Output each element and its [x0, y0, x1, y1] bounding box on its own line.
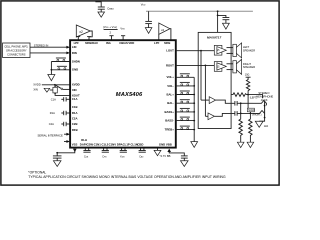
ground [247, 142, 254, 147]
node junction tip [240, 102, 242, 104]
wire to buffer B4 [204, 65, 206, 116]
pin labels right [164, 49, 174, 132]
switch S3 [55, 85, 70, 90]
svg-text:CBIAS: CBIAS [119, 41, 128, 45]
svg-text:C2B: C2B [72, 122, 78, 126]
pin VSS arrow [56, 149, 76, 154]
svg-text:JACK: JACK [261, 98, 268, 102]
resistor R4 [249, 113, 253, 142]
svg-text:CL1P CL1N: CL1P CL1N [123, 142, 138, 146]
pin LPF [76, 37, 80, 41]
headphone jack [253, 101, 266, 122]
svg-text:RFB: RFB [72, 128, 78, 132]
capacitor CPB [102, 148, 109, 158]
speaker right [233, 59, 242, 74]
wire ROUT inside box [198, 64, 214, 66]
svg-text:LIN: LIN [72, 45, 77, 49]
svg-text:XVDD: XVDD [72, 82, 80, 86]
button BAL- [176, 100, 195, 104]
wire SGND to ring [249, 112, 251, 114]
connectors box [3, 43, 30, 58]
ground [237, 142, 244, 147]
capacitor CHOLD [49, 122, 70, 126]
capacitor C3 [218, 15, 230, 23]
svg-text:SPEAKER: SPEAKER [243, 65, 255, 69]
ground [44, 88, 53, 92]
pin VSS [121, 36, 125, 41]
node junction ring [250, 113, 252, 115]
switch S1 [51, 58, 70, 62]
svg-text:SERIAL INTERFACE: SERIAL INTERFACE [38, 134, 63, 138]
svg-text:CBD: CBD [139, 156, 144, 159]
wire sense down [247, 95, 249, 109]
pin labels top [74, 41, 171, 45]
button BAL+ [176, 91, 195, 95]
svg-text:XVDD: XVDD [33, 82, 41, 86]
svg-text:BAL-: BAL- [167, 101, 174, 105]
svg-text:(RIGHT): (RIGHT) [252, 114, 261, 117]
capacitor CBIAS [95, 2, 114, 12]
ground [181, 161, 189, 167]
svg-text:RIN: RIN [72, 51, 77, 55]
svg-text:VOL+: VOL+ [167, 75, 175, 79]
wire VDD rail [146, 10, 253, 12]
ground [154, 148, 161, 155]
wire RIN [30, 52, 70, 55]
capacitor CDB [51, 97, 70, 101]
capacitor ROL [50, 111, 70, 115]
node junction [51, 69, 53, 71]
svg-text:x2: x2 [161, 28, 165, 32]
button VOL+ [176, 74, 194, 78]
svg-text:MAX9717: MAX9717 [207, 36, 221, 40]
pin labels left [72, 45, 87, 142]
svg-text:MAX5406: MAX5406 [116, 92, 143, 98]
pin VBB arrow [160, 149, 185, 159]
crystal Y1 [53, 85, 70, 96]
svg-text:LPF: LPF [154, 41, 160, 45]
svg-text:CBD: CBD [137, 142, 143, 146]
svg-text:BASS+: BASS+ [164, 110, 174, 114]
svg-text:(LEFT): (LEFT) [250, 97, 258, 100]
wire button ground rail [193, 77, 195, 141]
node (VDD+VSS)/2 [103, 25, 118, 34]
resistor R2 [245, 74, 251, 95]
node junction [54, 84, 56, 86]
node junction [247, 94, 249, 96]
svg-text:C1NV DPA: C1NV DPA [109, 142, 123, 146]
ground [223, 23, 230, 29]
node SGND [247, 108, 255, 112]
capacitor C5 [235, 111, 260, 116]
svg-text:TYPICAL APPLICATION CIRCUIT SH: TYPICAL APPLICATION CIRCUIT SHOWING MONO… [28, 175, 226, 179]
svg-text:SGND: SGND [248, 110, 255, 112]
wire LIN [30, 46, 70, 49]
svg-text:GND VBB: GND VBB [159, 142, 172, 146]
pin labels bottom [72, 142, 172, 146]
svg-text:XIN: XIN [72, 88, 77, 92]
svg-text:RLH: RLH [81, 138, 87, 142]
buffer B4 [205, 113, 235, 120]
ground [53, 161, 61, 167]
svg-text:CONNECTORS: CONNECTORS [7, 52, 26, 56]
svg-text:HEADPHONE: HEADPHONE [256, 95, 273, 99]
capacitor C4 [235, 101, 253, 106]
wire LOUT inside box [198, 50, 214, 52]
op-amp U3 [159, 23, 171, 40]
svg-text:10Ω: 10Ω [245, 74, 250, 77]
ground [191, 142, 198, 148]
svg-text:C1B: C1B [72, 105, 78, 109]
button VOL- [176, 82, 195, 86]
svg-text:R1A: R1A [72, 111, 78, 115]
op-amp U2 [76, 25, 92, 37]
svg-text:x2: x2 [79, 30, 83, 34]
wire LOUT [176, 50, 215, 52]
svg-text:STEREO: STEREO [258, 91, 269, 95]
capacitor KDB [120, 148, 127, 158]
svg-text:ROUT: ROUT [166, 63, 174, 67]
capacitor CVBB [181, 156, 188, 161]
svg-text:C1A: C1A [51, 97, 56, 101]
svg-text:SPEAKER: SPEAKER [243, 48, 255, 52]
svg-text:MFB/DAC: MFB/DAC [85, 41, 98, 45]
svg-text:VOL-: VOL- [167, 84, 174, 88]
svg-text:LOUT: LOUT [166, 49, 174, 53]
button BASS- [176, 117, 195, 121]
resistor R3 [239, 103, 243, 142]
svg-text:BASS-: BASS- [165, 119, 174, 123]
node junction [205, 65, 207, 67]
ground [98, 12, 105, 17]
svg-text:*4.7V BB: *4.7V BB [160, 154, 171, 158]
pin INA [109, 36, 113, 41]
svg-text:TREB+: TREB+ [165, 128, 175, 132]
svg-text:C1A: C1A [72, 97, 78, 101]
button BASS+ [176, 108, 195, 112]
node junction [200, 50, 202, 52]
svg-text:OR ACCESSORY: OR ACCESSORY [6, 48, 27, 52]
svg-text:MFB: MFB [164, 41, 170, 45]
pin MFB [87, 37, 91, 41]
wire to buffer B3 [200, 51, 202, 100]
ground [48, 75, 55, 81]
ground [255, 121, 263, 127]
button TREB+ [176, 126, 195, 130]
svg-text:VDD: VDD [128, 41, 134, 45]
capacitor CVSS [53, 153, 62, 161]
IC U1 MAX5406 [70, 40, 176, 147]
svg-text:C1N1 C1L2: C1N1 C1L2 [94, 142, 109, 146]
svg-text:C2A: C2A [49, 122, 54, 126]
wire XVDD [42, 84, 70, 86]
wire sense [248, 95, 263, 99]
svg-text:C2A: C2A [72, 117, 78, 121]
svg-text:BAL+: BAL+ [167, 92, 175, 96]
svg-text:XIN: XIN [33, 87, 38, 91]
amplifier A2 [214, 62, 233, 72]
svg-text:R1A: R1A [50, 111, 55, 115]
svg-text:1kΩ: 1kΩ [264, 125, 269, 128]
buffer B3 [201, 97, 235, 104]
svg-text:DAP/CSW: DAP/CSW [80, 142, 94, 146]
svg-text:GND: GND [72, 68, 78, 72]
capacitor CDB [83, 148, 90, 158]
ground [145, 28, 152, 34]
wire VDD to amp box [217, 10, 219, 32]
resistor R1 [231, 93, 248, 97]
wire mode1 [64, 133, 70, 136]
svg-text:CELL PHONE, MP3,: CELL PHONE, MP3, [4, 44, 28, 48]
amp box MAX9717 [198, 32, 231, 128]
wire mode2 [64, 140, 70, 143]
wire ROUT [176, 64, 215, 66]
amplifier A1 [214, 45, 233, 55]
speaker left [233, 43, 242, 58]
capacitor CBD [139, 148, 146, 158]
node junction cross [240, 113, 242, 115]
switch S2 [51, 66, 70, 70]
wire switch rail [50, 62, 52, 75]
svg-text:VSS: VSS [72, 142, 78, 146]
svg-text:SHDN: SHDN [72, 59, 80, 63]
svg-text:INA: INA [106, 41, 111, 45]
capacitor C2 [145, 11, 152, 27]
